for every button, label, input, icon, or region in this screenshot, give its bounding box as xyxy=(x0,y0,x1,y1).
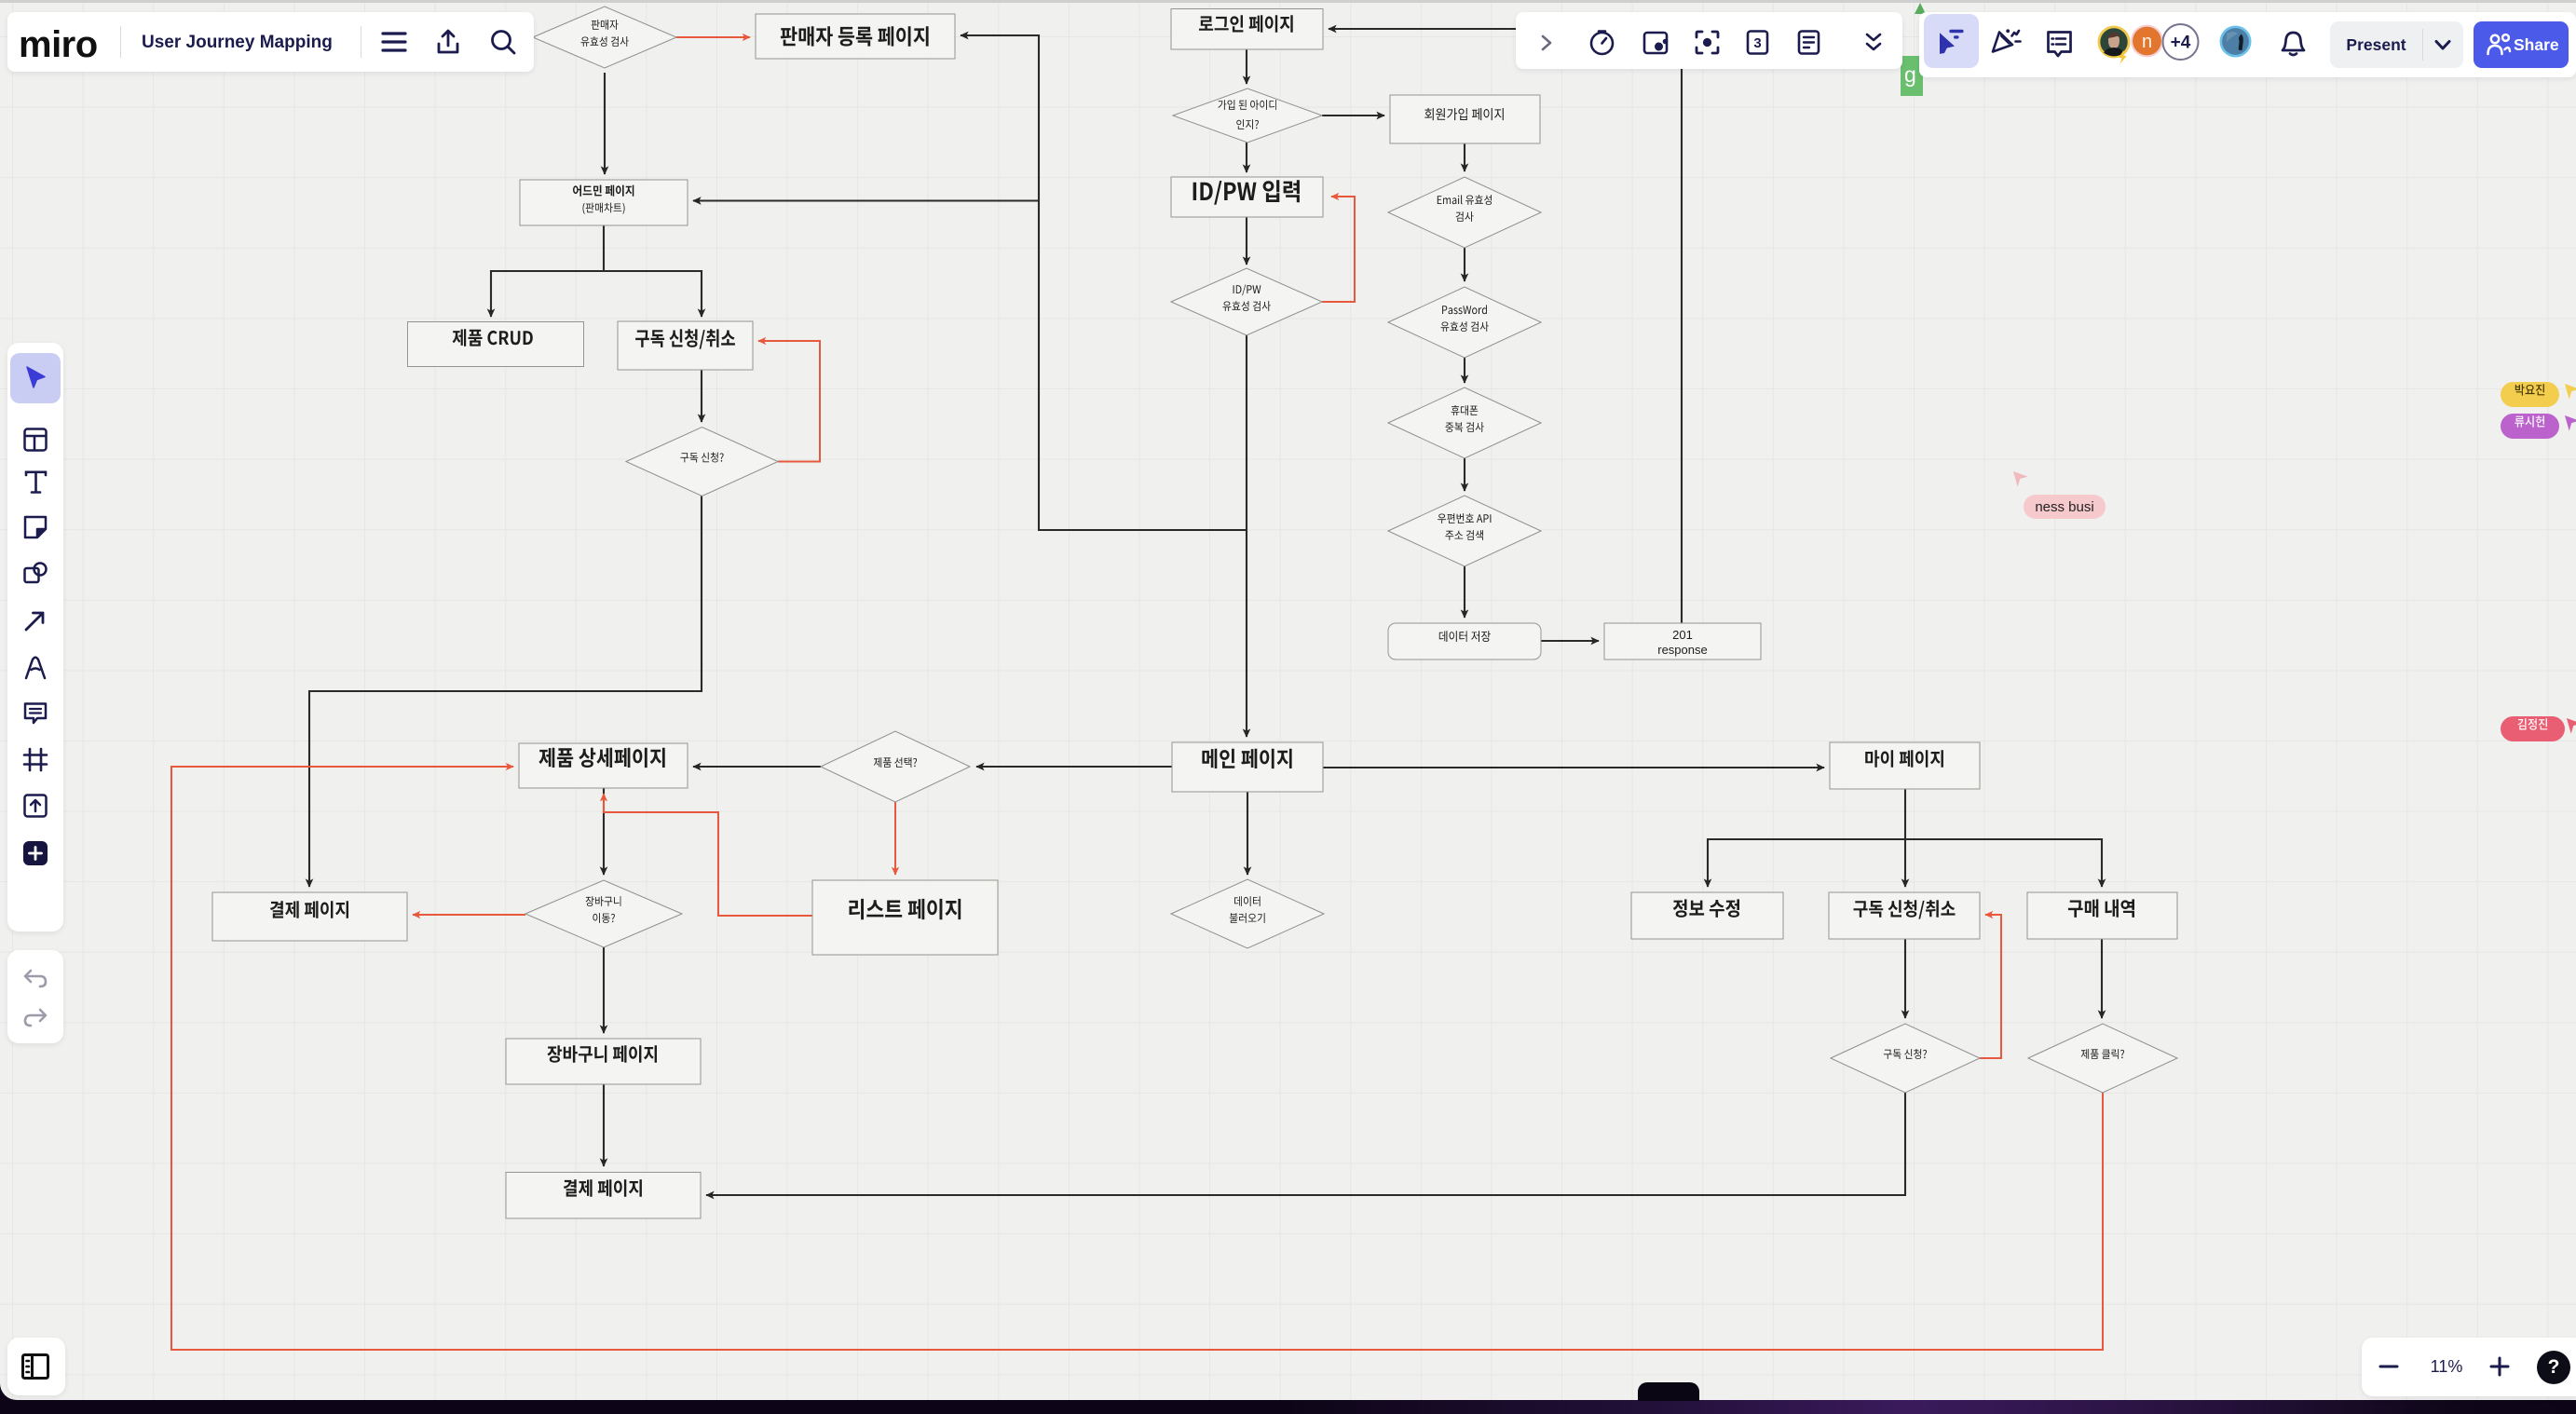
hidden green text box xyxy=(1901,56,1923,96)
label 데이터 저장 xyxy=(1439,631,1491,642)
miro logo xyxy=(19,24,102,66)
avatar 2 n xyxy=(2131,24,2164,59)
label 구독 신청?(우) xyxy=(1884,1049,1927,1059)
tool select active xyxy=(10,353,61,403)
wire: 구독신청? -> 결제페이지(좌) xyxy=(309,496,702,887)
wire: ->어드민페이지 우측 진입 xyxy=(693,199,1039,201)
svg-text:response: response xyxy=(1657,643,1707,657)
media icon xyxy=(1642,29,1670,56)
frames icon xyxy=(20,1353,50,1380)
wire: 휴대폰 -> 우편번호 xyxy=(1464,458,1465,491)
export icon xyxy=(435,28,461,56)
wire: 201response -> 로그인페이지 xyxy=(1329,29,1682,623)
label 리스트 페이지 xyxy=(849,899,961,919)
timer icon xyxy=(1588,29,1615,56)
notes icon xyxy=(1795,29,1822,56)
label 장바구니 페이지 xyxy=(548,1045,658,1063)
notifications bell xyxy=(2280,30,2307,59)
label 검사 xyxy=(1456,211,1474,222)
decision: 휴대폰 중복 검사 xyxy=(1388,387,1541,458)
header divider 1 xyxy=(120,26,121,58)
label 구매 내역 xyxy=(2068,899,2134,918)
wire: 제품선택? -> 제품상세페이지 xyxy=(693,766,821,768)
decision: 구독 신청?(우) xyxy=(1831,1024,1980,1093)
label 제품 CRUD xyxy=(453,329,533,347)
label 불러오기 xyxy=(1230,913,1265,923)
wire: 분기 -> 구독신청취소(우) xyxy=(1904,838,1906,887)
label Email 유효성 xyxy=(1438,195,1492,205)
wire: 어드민페이지 분기 내림 xyxy=(603,225,605,270)
header bar xyxy=(7,12,534,72)
wire: PassWord -> 휴대폰 xyxy=(1464,358,1465,383)
board title xyxy=(142,33,333,53)
tool upload xyxy=(22,793,48,819)
wire: 분기 -> 정보수정 xyxy=(1707,838,1709,887)
process: 201 response xyxy=(1604,623,1761,659)
undo redo panel xyxy=(7,950,63,1043)
select cursor icon xyxy=(1938,28,1968,58)
decision: 가입 된 아이디 인지? xyxy=(1173,88,1322,143)
decision: 구독 신청?(좌) xyxy=(626,428,778,496)
wire: Email -> PassWord xyxy=(1464,248,1465,281)
decision: PassWord 유효성 검사 xyxy=(1388,287,1541,358)
process: 메인 페이지 xyxy=(1172,742,1323,792)
decision: ID/PW 유효성 검사 xyxy=(1171,268,1322,335)
collab panel xyxy=(1919,12,2576,77)
label 우편번호 API xyxy=(1438,513,1491,523)
label 어드민 페이지 xyxy=(573,185,634,197)
tool text xyxy=(23,469,48,495)
wire: 가입된아이디 -> 회원가입페이지 xyxy=(1322,115,1384,116)
wire: 분기 -> 구독신청취소 xyxy=(701,270,702,317)
help button xyxy=(2537,1351,2570,1384)
tool more plus xyxy=(22,840,48,866)
collab cursor: 김정진(빨강) xyxy=(2567,718,2576,734)
wire: 메인 -> 마이페이지 xyxy=(1323,767,1824,768)
process: 장바구니 페이지 xyxy=(506,1039,701,1084)
process: 제품 상세페이지 xyxy=(519,743,688,788)
wire: 판매자유효성검사 -> 어드민페이지 xyxy=(604,73,606,174)
wire: 데이터저장 -> 201response xyxy=(1541,640,1599,642)
label 정보 수정 xyxy=(1673,899,1739,918)
comments icon xyxy=(2046,29,2076,59)
collab cursor: 박요진(노랑) xyxy=(2565,384,2576,400)
process: 결제 페이지(좌) xyxy=(212,892,407,941)
label 제품 상세페이지 xyxy=(538,748,664,768)
label 구독 신청/취소(우) xyxy=(1854,900,1956,918)
focus frame icon xyxy=(1694,29,1721,56)
process: 판매자 등록 페이지 xyxy=(756,14,955,59)
process: 제품 CRUD xyxy=(408,322,584,367)
zoom bar xyxy=(2362,1338,2576,1396)
dock bump xyxy=(1638,1382,1699,1401)
decision: 제품 클릭? xyxy=(2028,1024,2177,1093)
decision: 데이터 불러오기 xyxy=(1171,879,1324,948)
redo icon xyxy=(22,1006,48,1028)
label (판매차트) xyxy=(583,203,625,214)
label 메인 페이지 xyxy=(1202,749,1291,768)
tool frame xyxy=(22,747,48,772)
wire: 가입된아이디 -> ID/PW입력 xyxy=(1246,143,1247,172)
bottom dock bar xyxy=(0,1400,2576,1414)
present button xyxy=(2330,21,2463,68)
zoom level xyxy=(2415,1338,2478,1396)
red wire: 제품선택? -> 리스트페이지 xyxy=(894,802,896,875)
label 장바구니 xyxy=(586,896,621,906)
wire: 메인 -> 제품선택? xyxy=(976,766,1172,768)
process: 구매 내역 xyxy=(2027,892,2177,939)
tools panel xyxy=(1516,12,1902,69)
wire: 분기 -> 구매내역 xyxy=(2101,838,2103,887)
wire: 장바구니페이지 -> 결제페이지(하) xyxy=(603,1084,605,1166)
zoom out xyxy=(2378,1358,2399,1375)
search icon xyxy=(489,28,517,56)
collab cursor: ness busi(핑크) xyxy=(2013,471,2028,487)
label 유효성 검사(3) xyxy=(1441,321,1489,332)
select tool active xyxy=(1924,14,1979,68)
tool arrow xyxy=(23,608,48,632)
red wire: 장바구니이동? -> 결제페이지(좌) xyxy=(413,914,525,916)
wire: 분기 가로선 xyxy=(491,270,702,272)
label 로그인 페이지 xyxy=(1199,15,1293,33)
tool pen xyxy=(23,654,48,680)
wire: 마이페이지 분기 내림 xyxy=(1904,789,1906,838)
estimate icon xyxy=(1744,29,1771,56)
tool templates xyxy=(22,427,48,453)
label 중복 검사 xyxy=(1445,422,1483,432)
wire: 마이 분기 가로선 xyxy=(1708,838,2102,840)
label 가입 된 아이디 xyxy=(1218,100,1275,110)
label 구독 신청? xyxy=(680,453,723,463)
process: 어드민 페이지(판매차트) xyxy=(520,180,688,225)
avatar overflow +4 xyxy=(2161,23,2201,62)
wire: 분기 -> 판매자등록페이지 xyxy=(961,35,1247,530)
process: 구독 신청/취소(좌) xyxy=(618,321,753,370)
screen top edge xyxy=(0,0,2576,3)
zoom in xyxy=(2489,1356,2510,1377)
red wire: 제품클릭? -> 제품상세페이지 대순환 xyxy=(171,767,2103,1350)
share label xyxy=(2514,21,2569,68)
left toolbar panel xyxy=(7,343,63,931)
wire: 구독신청취소(우) -> 구독신청?(우) xyxy=(1904,939,1906,1018)
red wire: 구독신청? -> 구독신청취소 루프 xyxy=(758,341,820,462)
wire: 구독신청?(우) -> 결제페이지(하) xyxy=(706,1092,1905,1195)
avatar 1 photo xyxy=(2096,24,2138,69)
label ID/PW xyxy=(1233,285,1261,296)
label PassWord xyxy=(1442,305,1487,314)
label 제품 선택? xyxy=(874,757,917,768)
collab cursor: 류시헌(보라) xyxy=(2565,415,2576,431)
collab tag: 박요진 xyxy=(2501,382,2559,407)
wire: 로그인 -> 가입된아이디인지 xyxy=(1246,49,1247,84)
undo icon xyxy=(22,967,48,989)
wire: ID/PW유효성 -> 메인페이지 xyxy=(1246,335,1247,737)
svg-text:+4: +4 xyxy=(2171,34,2191,53)
wire: 메인 -> 데이터불러오기 xyxy=(1247,792,1248,875)
avatar self xyxy=(2219,25,2253,59)
more chevrons xyxy=(1863,31,1884,55)
process: 데이터 저장 xyxy=(1388,623,1541,659)
red wire: 판매자유효성 -> 판매자등록페이지 xyxy=(676,36,750,38)
process: 정보 수정 xyxy=(1631,892,1783,939)
collab tag: 김정진 xyxy=(2501,716,2565,741)
process: 결제 페이지(하) xyxy=(506,1173,701,1219)
process: 마이 페이지 xyxy=(1830,742,1980,789)
share button xyxy=(2474,21,2569,68)
process: 구독 신청/취소(우) xyxy=(1829,892,1980,939)
wire: 회원가입 -> Email유효성 xyxy=(1464,143,1465,171)
menu icon xyxy=(381,30,407,54)
process: 회원가입 페이지 xyxy=(1390,95,1540,143)
svg-text:201: 201 xyxy=(1672,628,1693,642)
label 유효성 검사 xyxy=(581,36,629,47)
label 구독 신청/취소 xyxy=(635,329,735,349)
label 회원가입 페이지 xyxy=(1424,108,1504,120)
label 이동? xyxy=(593,913,615,923)
label ID/PW 입력 xyxy=(1193,180,1300,205)
header divider 2 xyxy=(361,26,361,58)
wire: 제품상세 -> 장바구니이동? xyxy=(603,788,605,875)
tool select cursor xyxy=(22,365,48,391)
reactions icon xyxy=(1986,24,2024,60)
process: ID/PW 입력 xyxy=(1171,177,1323,217)
decision: 우편번호 API 주소 검색 xyxy=(1388,496,1541,566)
label 판매자 등록 페이지 xyxy=(781,26,929,46)
frames panel button xyxy=(7,1338,65,1395)
label 인지? xyxy=(1236,119,1259,129)
decision: 장바구니 이동? xyxy=(525,880,682,947)
label 데이터 xyxy=(1234,896,1261,906)
collab tag: ness busi xyxy=(2024,495,2106,519)
label 판매자 xyxy=(592,20,619,30)
label 마이 페이지 xyxy=(1865,750,1943,768)
decision: 제품 선택? xyxy=(821,731,970,802)
label 휴대폰 xyxy=(1452,405,1479,415)
wire: 구매내역 -> 제품클릭? xyxy=(2101,939,2103,1018)
red wire: ID/PW유효성 -> ID/PW입력 루프 xyxy=(1322,197,1355,302)
decision: Email 유효성 검사 xyxy=(1388,177,1541,248)
decision: 판매자 유효성 검사 xyxy=(533,7,676,68)
red wire: 리스트페이지 -> 제품상세페이지 루프 xyxy=(604,794,812,916)
collab tag: 류시헌 xyxy=(2501,414,2559,439)
tool comment xyxy=(22,700,48,726)
red wire: 구독신청?(우) -> 구독신청취소(우) 루프 xyxy=(1980,915,2001,1058)
tool sticky note xyxy=(22,514,48,540)
wire: 분기 -> 제품CRUD xyxy=(490,270,492,317)
svg-text:n: n xyxy=(2142,32,2152,52)
wire: 구독신청취소 -> 구독신청? xyxy=(701,370,702,422)
wire: 장바구니이동? -> 장바구니페이지 xyxy=(603,947,605,1033)
label 유효성 검사(2) xyxy=(1223,301,1271,311)
svg-text:ness busi: ness busi xyxy=(2035,499,2093,515)
svg-text:3: 3 xyxy=(1753,35,1761,51)
process: 리스트 페이지 xyxy=(812,880,998,955)
label 결제 페이지(하) xyxy=(564,1179,642,1197)
label 제품 클릭? xyxy=(2081,1049,2124,1059)
wire: ID/PW입력 -> ID/PW유효성 xyxy=(1246,217,1247,265)
tool shapes xyxy=(22,561,48,587)
present chevron xyxy=(2433,38,2452,53)
label 결제 페이지 xyxy=(270,901,348,918)
collapse chevron xyxy=(1537,34,1556,52)
label 주소 검색 xyxy=(1445,530,1483,540)
process: 로그인 페이지 xyxy=(1171,9,1323,50)
share icon xyxy=(2486,32,2512,58)
wire: 우편번호 -> 데이터저장 xyxy=(1464,566,1465,618)
